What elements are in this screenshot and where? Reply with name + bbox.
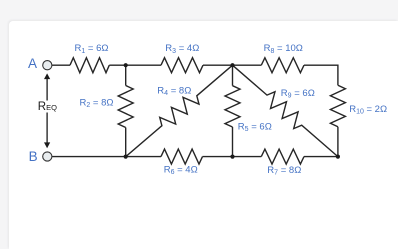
node: bottom junction R5/R6/R7 bbox=[230, 155, 234, 159]
svg-text:R9 = 6Ω: R9 = 6Ω bbox=[281, 88, 315, 100]
wire R2 top lead bbox=[125, 65, 127, 85]
wire R5 bottom lead bbox=[232, 127, 234, 157]
svg-text:R4 = 8Ω: R4 = 8Ω bbox=[157, 85, 191, 97]
junction node dots bbox=[124, 63, 340, 159]
node: top center junction R3/R4/R5/R8/R9 bbox=[230, 63, 234, 67]
resistor R3 bbox=[161, 58, 203, 73]
svg-text:R8 = 10Ω: R8 = 10Ω bbox=[264, 43, 303, 55]
svg-text:R6 = 4Ω: R6 = 4Ω bbox=[164, 164, 198, 176]
svg-text:R3 = 4Ω: R3 = 4Ω bbox=[165, 43, 199, 55]
wire top: R1 to R3 bbox=[109, 64, 161, 66]
resistor R7 bbox=[261, 149, 304, 164]
svg-text:R5 = 6Ω: R5 = 6Ω bbox=[238, 121, 272, 133]
terminal A circle bbox=[43, 61, 52, 70]
wire top: R3 to R8 bbox=[203, 64, 261, 66]
wire R2 bottom lead bbox=[125, 128, 127, 157]
node: bottom right junction R7/R9/R10 bbox=[336, 155, 340, 159]
svg-text:R1 = 6Ω: R1 = 6Ω bbox=[75, 43, 109, 55]
wire top: A to R1 bbox=[52, 64, 70, 66]
wire bottom: R7 to right node bbox=[304, 156, 338, 158]
wire R5 top lead bbox=[232, 65, 234, 86]
resistor R9 (diagonal with leads) bbox=[233, 65, 338, 156]
resistor R5 bbox=[225, 86, 240, 127]
resistor R6 bbox=[161, 149, 203, 164]
wire R10 to bottom right node bbox=[337, 127, 339, 157]
resistor R10 bbox=[330, 85, 345, 127]
wire top right corner down to R10 bbox=[304, 65, 338, 85]
wire bottom: R6 to R7 bbox=[203, 156, 262, 158]
resistor R2 bbox=[118, 86, 133, 128]
node: top junction R1/R2/R3 bbox=[124, 63, 128, 67]
svg-text:R7 = 8Ω: R7 = 8Ω bbox=[267, 165, 301, 177]
node: bottom junction R2/R4/R6 bbox=[124, 155, 128, 159]
terminal B circle bbox=[43, 152, 52, 161]
svg-text:A: A bbox=[28, 56, 37, 71]
svg-text:R10 = 2Ω: R10 = 2Ω bbox=[349, 104, 387, 116]
wire bottom: B to R6 bbox=[52, 156, 161, 158]
svg-text:REQ: REQ bbox=[38, 101, 57, 113]
resistor R1 bbox=[70, 58, 109, 73]
svg-text:B: B bbox=[29, 149, 38, 164]
REQ measurement arrow (double headed) bbox=[44, 73, 50, 148]
resistor R8 bbox=[261, 58, 304, 73]
resistor R4 (diagonal with leads) bbox=[126, 65, 233, 157]
svg-text:R2 = 8Ω: R2 = 8Ω bbox=[80, 97, 114, 109]
